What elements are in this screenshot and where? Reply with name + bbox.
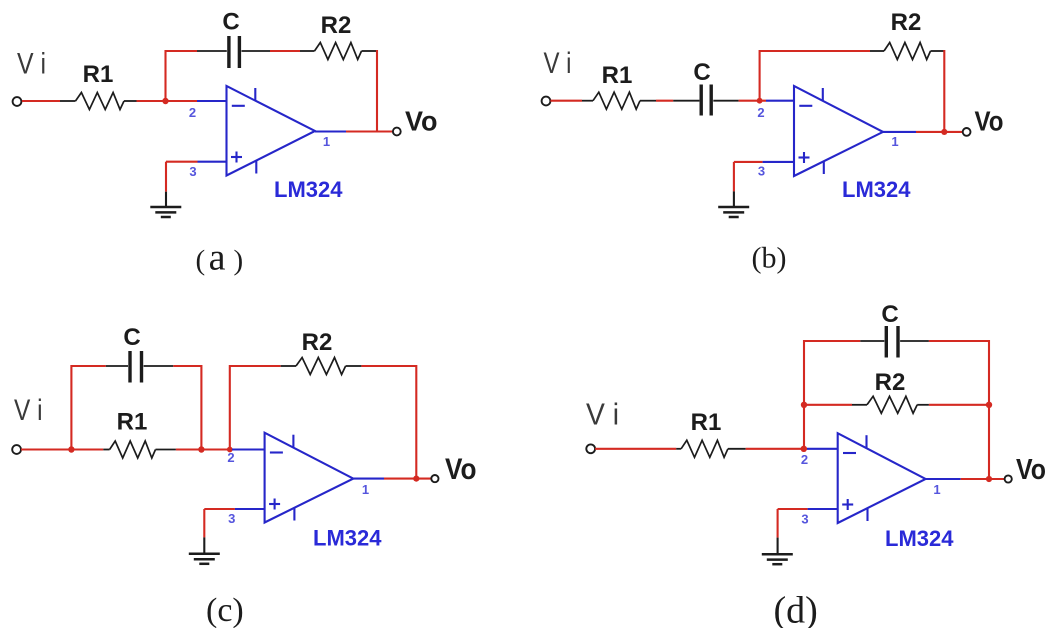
circuit (a) wire pin2 (blue) xyxy=(197,100,227,102)
circuit (b) wire C lead right (black) xyxy=(713,100,738,102)
circuit (b) feedback riser wire (red) xyxy=(759,50,761,101)
circuit (b) wire C to node 2 (red) xyxy=(739,100,766,102)
circuit (a) resistor R1 xyxy=(76,93,125,110)
circuit (c) op-amp triangle xyxy=(265,433,354,523)
circuit (b) op-amp bottom power pin stub xyxy=(823,161,825,174)
circuit (d) feedback riser left (red) xyxy=(803,340,805,449)
circuit (a) op-amp inverting input minus symbol xyxy=(232,105,245,107)
circuit (b) wire R2 lead right (black) xyxy=(931,50,945,52)
svg-text:R2: R2 xyxy=(302,329,333,356)
svg-text:2: 2 xyxy=(801,452,808,467)
circuit (a) wire R1 lead right (black) xyxy=(124,100,137,102)
circuit (c) ground riser black xyxy=(203,537,205,553)
circuit (a) op-amp triangle xyxy=(227,86,316,176)
circuit (d) output wire to Vo (red) xyxy=(961,478,1005,480)
circuit (a) feedback riser wire (red) xyxy=(164,50,166,101)
circuit (b) wire C lead left (black) xyxy=(673,100,699,102)
circuit (b) op-amp inverting input minus symbol xyxy=(799,105,812,107)
svg-text:LM324: LM324 xyxy=(274,177,343,202)
circuit (d) R2 wire red left xyxy=(804,404,852,406)
svg-text:LM324: LM324 xyxy=(313,526,382,551)
svg-text:R2: R2 xyxy=(321,12,352,39)
circuit (c) C branch riser left (red) xyxy=(70,365,72,450)
svg-text:1: 1 xyxy=(362,482,369,497)
circuit (b) output junction dot xyxy=(941,129,947,135)
circuit (a) feedback top wire red segment xyxy=(166,50,198,52)
svg-text:V i: V i xyxy=(544,47,572,80)
circuit (d) op-amp inverting input minus symbol xyxy=(843,452,856,454)
circuit (c) C branch top wire red left xyxy=(71,365,105,367)
circuit (c) wire R1 lead left (black) xyxy=(103,449,109,451)
circuit (a) wire R1 to node 2 (red) xyxy=(137,100,198,102)
circuit (d) wire pin3 red segment xyxy=(778,508,808,510)
circuit (b) op-amp output wire (blue) xyxy=(883,131,916,133)
circuit (b) feedback down wire (red) xyxy=(943,50,945,132)
circuit (d) wire R2 lead left (black) xyxy=(852,404,867,406)
circuit (c) capacitor C xyxy=(128,351,131,383)
circuit (c) C branch riser right (red) xyxy=(200,365,202,450)
circuit (b) resistor R1 xyxy=(593,92,640,109)
circuit (b) wire R1 lead left (black) xyxy=(582,100,593,102)
circuit (c) feedback top wire red left xyxy=(230,365,281,367)
circuit (b) resistor R2 xyxy=(884,43,931,60)
circuit (b) ground riser red xyxy=(733,162,735,192)
circuit (d) output terminal xyxy=(1005,475,1012,482)
svg-text:C: C xyxy=(881,301,898,328)
circuit (b) junction node inverting input xyxy=(757,98,763,104)
circuit (a) feedback down wire (red) xyxy=(376,50,378,132)
circuit (d) wire R2 lead right (black) xyxy=(917,404,929,406)
circuit (c) ground riser red xyxy=(203,509,205,537)
circuit (d) wire C lead right (black) xyxy=(900,340,929,342)
circuit (d) output junction dot xyxy=(986,476,992,482)
circuit (d) wire R1 lead right (black) xyxy=(728,448,746,450)
circuit (c) output wire to Vo (red) xyxy=(384,478,431,480)
circuit (c) op-amp non-inverting input plus symbol xyxy=(269,503,280,505)
svg-text:R1: R1 xyxy=(602,62,633,89)
circuit (c) wire R1 to node 2 (red) xyxy=(176,448,232,450)
svg-text:(c): (c) xyxy=(206,592,244,628)
svg-text:3: 3 xyxy=(758,164,765,179)
svg-text:C: C xyxy=(222,9,239,36)
svg-text:V i: V i xyxy=(586,397,619,432)
circuit (b) output terminal xyxy=(963,128,971,136)
circuit (a) output terminal xyxy=(393,128,401,136)
circuit (a) op-amp output wire (blue) xyxy=(315,130,346,132)
circuit (c) output junction dot xyxy=(413,476,419,482)
svg-text:Vo: Vo xyxy=(975,106,1004,137)
circuit (d) junction node R2 right xyxy=(986,402,992,408)
circuit (a) op-amp top power pin stub xyxy=(254,88,256,101)
circuit (c) feedback down wire (red) xyxy=(415,365,417,479)
circuit (c) C branch top wire red right xyxy=(173,365,201,367)
circuit (a) input terminal xyxy=(13,97,22,106)
svg-text:1: 1 xyxy=(933,482,940,497)
circuit (c) wire pin3 blue segment xyxy=(235,508,265,510)
circuit (c) wire pin3 red segment xyxy=(204,508,235,510)
circuit (d) op-amp output wire (blue) xyxy=(926,478,961,480)
circuit (c) input terminal xyxy=(12,445,21,454)
circuit (d) capacitor C xyxy=(885,326,888,358)
circuit (c) op-amp inverting input minus symbol xyxy=(270,451,283,453)
circuit (b) ground riser black xyxy=(733,191,735,207)
circuit (b) wire R1 lead right (black) xyxy=(640,100,656,102)
circuit (a) op-amp bottom power pin stub xyxy=(255,161,257,174)
circuit (a) wire pin3 blue segment xyxy=(198,161,228,163)
svg-text:3: 3 xyxy=(189,164,196,179)
circuit (c) wire C lead left (black) xyxy=(106,365,128,367)
circuit (d) wire Vi to R1 (red) xyxy=(595,448,676,450)
svg-text:2: 2 xyxy=(189,105,196,120)
circuit (c) wire Vi to node A (red) xyxy=(21,448,103,450)
circuit (d) resistor R1 xyxy=(681,440,728,457)
circuit (c) feedback top wire red right xyxy=(361,365,416,367)
svg-text:LM324: LM324 xyxy=(885,526,954,551)
circuit (a) op-amp non-inverting input plus symbol xyxy=(231,156,242,158)
circuit (c) resistor R1 xyxy=(110,441,156,458)
circuit (d) ground riser black xyxy=(777,538,779,555)
circuit (d) wire pin2 (blue) xyxy=(807,448,838,450)
circuit (c) op-amp bottom power pin stub xyxy=(293,508,295,521)
svg-text:2: 2 xyxy=(227,450,234,465)
circuit (d) wire R1 to node 2 (red) xyxy=(746,448,807,450)
svg-text:R1: R1 xyxy=(117,409,148,436)
circuit (a) wire C lead left (black) xyxy=(197,50,227,52)
svg-text:(d): (d) xyxy=(774,590,818,628)
circuit (b) output wire to Vo (red) xyxy=(916,131,963,133)
circuit (b) op-amp non-inverting input plus symbol xyxy=(799,156,810,158)
circuit (c) junction node A xyxy=(68,446,74,452)
circuit (a) wire R2 lead right (black) xyxy=(362,50,378,52)
svg-text:R1: R1 xyxy=(83,61,114,88)
circuit (d) op-amp bottom power pin stub xyxy=(866,508,868,521)
svg-text:V i: V i xyxy=(17,48,46,81)
circuit (a) resistor R2 xyxy=(315,43,362,60)
circuit (d) feedback riser right (red) xyxy=(988,340,990,479)
circuit (c) wire pin2 (blue) xyxy=(232,448,265,450)
circuit (c) resistor R2 xyxy=(296,358,346,375)
svg-text:C: C xyxy=(693,59,710,86)
svg-text:Vo: Vo xyxy=(1016,454,1046,486)
circuit (a) wire R2 lead left (black) xyxy=(300,50,315,52)
svg-text:3: 3 xyxy=(801,512,808,527)
circuit (b) feedback top wire (red) xyxy=(760,50,870,52)
circuit (c) wire R1 lead right (black) xyxy=(156,449,176,451)
svg-text:V i: V i xyxy=(14,394,43,427)
circuit (d) wire C lead left (black) xyxy=(860,340,884,342)
circuit (c) output terminal xyxy=(431,475,438,482)
svg-text:LM324: LM324 xyxy=(842,177,911,202)
circuit (c) wire C lead right (black) xyxy=(144,365,174,367)
circuit (c) junction node B xyxy=(198,446,204,452)
circuit (c) feedback riser wire (red) xyxy=(229,365,231,450)
circuit (d) junction node R2 left xyxy=(801,402,807,408)
circuit (a) wire R1 lead left (black) xyxy=(60,100,76,102)
circuit (d) resistor R2 xyxy=(867,396,917,413)
circuit (a) wire C to R2 (red) xyxy=(270,50,300,52)
svg-text:3: 3 xyxy=(228,511,235,526)
circuit (b) capacitor C xyxy=(700,85,703,116)
circuit (c) op-amp output wire (blue) xyxy=(353,478,384,480)
circuit (a) ground riser red xyxy=(165,162,167,192)
svg-text:1: 1 xyxy=(891,134,898,149)
circuit (d) ground symbol xyxy=(762,553,793,556)
circuit (d) op-amp non-inverting input plus symbol xyxy=(842,503,853,505)
svg-text:R2: R2 xyxy=(891,9,922,36)
circuit (b) op-amp triangle xyxy=(794,86,883,176)
svg-text:R2: R2 xyxy=(875,369,906,396)
svg-text:(b): (b) xyxy=(752,242,787,275)
circuit (d) R2 wire red right xyxy=(929,404,989,406)
circuit (b) wire pin3 red segment xyxy=(734,161,763,163)
circuit (c) op-amp top power pin stub xyxy=(292,435,294,448)
svg-text:2: 2 xyxy=(757,105,764,120)
circuit (b) input terminal xyxy=(542,97,551,106)
svg-text:Vo: Vo xyxy=(405,106,438,137)
svg-text:Vo: Vo xyxy=(445,453,477,486)
svg-text:R1: R1 xyxy=(691,409,722,436)
circuit (b) wire Vi to R1 (red) xyxy=(550,100,582,102)
circuit (b) wire pin3 blue segment xyxy=(763,161,795,163)
circuit (a) output wire to Vo (red) xyxy=(346,130,393,132)
circuit (d) junction node inverting input xyxy=(801,446,807,452)
circuit (a) wire pin3 red segment xyxy=(166,161,198,163)
svg-text:1: 1 xyxy=(323,134,330,149)
circuit (b) wire pin2 (blue) xyxy=(766,100,795,102)
circuit (d) wire pin3 blue segment xyxy=(808,508,839,510)
circuit (b) ground symbol xyxy=(718,206,749,209)
circuit (a) wire C lead right (black) xyxy=(242,50,271,52)
circuit (d) wire R1 lead left (black) xyxy=(676,448,681,450)
circuit (a) ground riser black xyxy=(165,192,167,207)
circuit (a) wire Vi to R1 (red) xyxy=(22,100,60,102)
circuit (b) op-amp top power pin stub xyxy=(822,88,824,101)
circuit (d) top C wire red left xyxy=(804,340,860,342)
circuit (d) input terminal xyxy=(586,444,595,453)
circuit (c) wire R2 lead left (black) xyxy=(281,365,296,367)
circuit (c) ground symbol xyxy=(189,553,220,556)
circuit (d) op-amp triangle xyxy=(838,433,926,523)
circuit (d) ground riser red xyxy=(777,509,779,538)
circuit (d) top C wire red right xyxy=(929,340,989,342)
circuit (c) wire R2 lead right (black) xyxy=(346,365,362,367)
circuit (b) wire R1 to C (red) xyxy=(656,100,673,102)
circuit (a) ground symbol xyxy=(150,206,181,209)
circuit (c) junction node inverting input xyxy=(227,447,233,453)
circuit (a) junction node inverting input xyxy=(162,98,168,104)
circuit (b) wire R2 lead left (black) xyxy=(870,50,884,52)
svg-text:C: C xyxy=(123,324,140,351)
circuit (d) op-amp top power pin stub xyxy=(865,435,867,448)
circuit (a) capacitor C xyxy=(227,36,230,68)
